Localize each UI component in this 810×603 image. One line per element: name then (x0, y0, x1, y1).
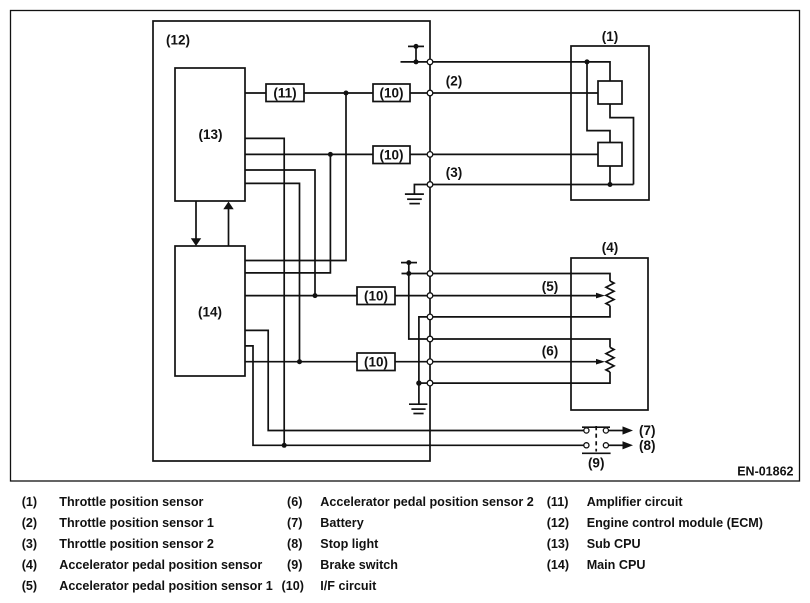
svg-text:(9): (9) (588, 455, 605, 470)
svg-text:(5): (5) (542, 279, 559, 294)
wire: pot2 bottom return (433, 372, 610, 383)
pin at (430,316.9) (427, 314, 433, 320)
wire: supply branch to pot2 pin (409, 274, 430, 340)
wire: sub CPU tap to accel sensor 2 line (245, 183, 300, 361)
arrow 14 to 13 (223, 202, 233, 247)
throttle position sensor box (1) (571, 46, 649, 200)
brake switch (9) contacts row (7) (584, 428, 589, 433)
pin at (430,273.5) (427, 271, 433, 277)
svg-text:(5): (5) (22, 579, 37, 593)
node: dot stop light / sub CPU junction (282, 443, 287, 448)
wire: element1 bottom to right bus (610, 104, 634, 185)
arrowhead (7) (623, 426, 634, 434)
wire: branch from amplifier node down to main CPU (245, 93, 346, 261)
svg-text:(1): (1) (22, 495, 37, 509)
svg-text:(2): (2) (22, 516, 37, 530)
svg-text:Stop light: Stop light (320, 537, 379, 551)
wire: I/F third to pin (395, 295, 430, 297)
svg-text:(14): (14) (198, 304, 222, 319)
svg-text:(7): (7) (639, 423, 656, 438)
svg-text:(10): (10) (282, 579, 304, 593)
wire: supply into pot2 (433, 339, 610, 347)
power supply symbol top (408, 44, 424, 65)
switch base line (582, 452, 611, 454)
wire: sub CPU to amplifier (245, 92, 266, 94)
node: dot junction (5) (313, 293, 318, 298)
pin at (430,361.7) (427, 359, 433, 365)
wire: supply branch to sensor element 2 (587, 62, 610, 143)
svg-text:Accelerator pedal position sen: Accelerator pedal position sensor 1 (59, 579, 272, 593)
wire: main CPU to I/F fourth (6) (245, 361, 357, 363)
node: dot junction (6) (297, 359, 302, 364)
svg-text:Accelerator pedal position sen: Accelerator pedal position sensor (59, 558, 262, 572)
svg-text:(6): (6) (287, 495, 302, 509)
accelerator pedal position sensor box (4) (571, 258, 648, 410)
wire: pin to ground top (414, 185, 427, 195)
svg-text:Engine control module (ECM): Engine control module (ECM) (587, 516, 763, 530)
wire: wiper arrow line (5) (433, 295, 597, 297)
sensor element square 2 (598, 143, 622, 167)
node: junction dot on sensor-2 line (328, 152, 333, 157)
potentiometer 2 zigzag (606, 347, 614, 372)
wire: pin to ground dot (419, 382, 427, 384)
legend column 2 (282, 495, 534, 593)
I/F box (10) second (373, 146, 410, 164)
svg-text:(3): (3) (22, 537, 37, 551)
wire: pin (3) to sensor element 2 (433, 153, 598, 155)
svg-text:Main CPU: Main CPU (587, 558, 646, 572)
I/F box (10) top (373, 84, 410, 102)
outer border frame (11, 11, 800, 482)
pin at (430,184.5) (427, 182, 433, 188)
arrow 13 to 14 (191, 201, 201, 246)
svg-text:(10): (10) (364, 289, 388, 304)
wire: ground return line (433, 184, 634, 186)
svg-text:(13): (13) (198, 127, 222, 142)
node: dot on ground return (608, 182, 613, 187)
wire: pin (2) to sensor element 1 (433, 92, 598, 94)
svg-text:(12): (12) (166, 33, 190, 48)
ECM box U12 (Engine control module) (153, 21, 430, 461)
node: supply branch dot (585, 59, 590, 64)
Sub CPU box (13) (175, 68, 245, 201)
svg-text:(11): (11) (547, 495, 569, 509)
wire: supply into pot1 (433, 274, 610, 282)
amplifier box (11) (266, 84, 304, 102)
pin at (430,295.6) (427, 293, 433, 299)
arrowhead (5) (596, 293, 605, 299)
svg-text:(11): (11) (273, 86, 296, 101)
wire: supply line into throttle sensor (433, 62, 610, 81)
node: junction dot on amplifier output (344, 91, 349, 96)
wire: stop light output arrow (8) (609, 444, 624, 446)
wire: sub CPU tap to stop light line (245, 138, 284, 445)
wire: sub CPU tap to accel sensor 1 line (245, 170, 315, 296)
wire: I/F top to pin (2) (410, 92, 430, 94)
svg-text:(3): (3) (446, 165, 463, 180)
svg-text:(10): (10) (364, 355, 388, 370)
arrowhead (8) (623, 441, 634, 449)
wire: pot1 bottom return (433, 306, 610, 317)
svg-text:Accelerator pedal position sen: Accelerator pedal position sensor 2 (320, 495, 533, 509)
svg-text:(7): (7) (287, 516, 302, 530)
pin at (430,339) (427, 336, 433, 342)
svg-text:(8): (8) (287, 537, 302, 551)
svg-text:Throttle position sensor: Throttle position sensor (59, 495, 203, 509)
power supply symbol middle (401, 260, 417, 276)
svg-text:Sub CPU: Sub CPU (587, 537, 641, 551)
svg-text:(10): (10) (379, 86, 403, 101)
svg-text:Throttle position sensor 1: Throttle position sensor 1 (59, 516, 214, 530)
potentiometer 1 zigzag (606, 281, 614, 306)
wire: wiper arrow line (6) (433, 361, 597, 363)
svg-text:(12): (12) (547, 516, 569, 530)
wire: element2 bottom to ground return (609, 166, 611, 185)
wire: I/F second to pin (3) (410, 153, 430, 155)
arrowhead (6) (596, 359, 605, 365)
svg-text:(1): (1) (602, 29, 619, 44)
sensor element square 1 (598, 81, 622, 104)
svg-text:Brake switch: Brake switch (320, 558, 398, 572)
wire: main CPU to battery line (7) (245, 330, 584, 430)
svg-text:(13): (13) (547, 537, 569, 551)
brake switch (9) contacts row (8) (584, 443, 589, 448)
pin at (430,61.9) (427, 59, 433, 65)
svg-text:Throttle position sensor 2: Throttle position sensor 2 (59, 537, 214, 551)
wire: supply to pin (401, 61, 431, 63)
svg-text:EN-01862: EN-01862 (737, 465, 793, 479)
ground symbol lower (409, 404, 427, 413)
legend column 3 (547, 495, 763, 572)
Main CPU box (14) (175, 246, 245, 376)
switch actuator dashed link (595, 426, 597, 452)
wire: main CPU to stop light line (8) (245, 346, 584, 445)
legend column 1 (22, 495, 273, 593)
switch closed bar (582, 426, 610, 428)
wire: branch down to main CPU (245, 154, 330, 273)
pin at (430,383.1) (427, 380, 433, 386)
pin at (430,93) (427, 90, 433, 96)
I/F box (10) third (357, 287, 395, 305)
svg-text:(9): (9) (287, 558, 302, 572)
svg-text:(2): (2) (446, 73, 463, 88)
wire: supply to pin (402, 273, 431, 275)
wire: main CPU to I/F third (5) (245, 295, 357, 297)
svg-text:Battery: Battery (320, 516, 363, 530)
I/F box (10) fourth (357, 353, 395, 371)
svg-text:(4): (4) (602, 240, 619, 255)
ground symbol top (405, 194, 424, 204)
wire: amplifier to I/F top (304, 92, 373, 94)
svg-text:Amplifier circuit: Amplifier circuit (587, 495, 684, 509)
node: dot at ground junction (416, 380, 421, 385)
wire: down to ground symbol (418, 383, 420, 404)
svg-text:(8): (8) (639, 438, 656, 453)
pin at (430,154.4) (427, 152, 433, 158)
svg-text:(10): (10) (379, 148, 403, 163)
svg-text:(6): (6) (542, 344, 559, 359)
svg-text:I/F circuit: I/F circuit (320, 579, 377, 593)
wire: I/F fourth to pin (395, 361, 430, 363)
svg-text:(14): (14) (547, 558, 569, 572)
wire: sub CPU to I/F second (245, 153, 373, 155)
svg-text:(4): (4) (22, 558, 37, 572)
wire: pot1 return to lower ground (419, 317, 427, 383)
wire: battery output arrow (7) (609, 430, 624, 432)
